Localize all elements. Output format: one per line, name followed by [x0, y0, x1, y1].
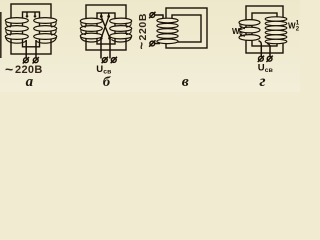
svg-text:W: W [288, 21, 296, 30]
winding top lead stub right (fig a) [34, 13, 36, 16]
core outer rect (fig v) [166, 8, 207, 48]
svg-text:в: в [182, 74, 189, 90]
winding top lead stub left (fig b) [100, 14, 102, 16]
svg-text:б: б [103, 75, 111, 90]
core outer rect (fig g) [246, 6, 283, 53]
left coil W2 half (fig b) [80, 18, 102, 42]
right coil W2 half (fig b) [110, 18, 132, 42]
terminal bottom (fig v) [149, 40, 155, 46]
wire down right (fig b) [109, 38, 111, 59]
left coil W2-2 (fig g) [239, 20, 260, 41]
page edge shadow [0, 12, 2, 58]
crossing wires X (fig b) [101, 17, 110, 39]
terminal right (fig b) [111, 57, 117, 63]
core window rect (fig a) [23, 12, 40, 47]
junction dot right top (fig b) [107, 15, 110, 18]
wire down left (fig b) [100, 38, 102, 59]
svg-text:U: U [258, 63, 265, 74]
junction dots bottom (fig b) [100, 37, 103, 40]
bottom hook right coil (fig g) [267, 43, 270, 56]
junction dot right top (fig a) [34, 15, 37, 18]
terminal left (fig b) [102, 57, 108, 63]
left coil W1 half (fig a) [5, 18, 28, 44]
bottom lead wire (fig v) [155, 43, 161, 45]
junction dot left top (fig b) [100, 15, 103, 18]
bottom hook left coil (fig g) [259, 41, 262, 57]
vertical label 220V (fig v) [134, 13, 149, 50]
winding top lead stub right (fig b) [108, 14, 110, 16]
terminal left (fig a) [23, 57, 29, 63]
coil on left leg (fig v) [157, 18, 178, 43]
terminal top (fig v) [149, 12, 155, 18]
wire down left (fig a) [25, 40, 27, 58]
right coil W1 half (fig a) [34, 18, 57, 44]
svg-text:~: ~ [134, 42, 149, 50]
svg-text:г: г [259, 73, 265, 90]
svg-text:св: св [265, 67, 273, 74]
junction dot left top (fig a) [26, 15, 29, 18]
core outer rect (fig b) [86, 5, 126, 50]
svg-text:~: ~ [5, 61, 13, 77]
core outer rect (fig a) [11, 4, 51, 54]
core window rect (fig v) [172, 15, 201, 42]
terminal right (fig a) [33, 57, 39, 63]
winding top lead stub left (fig a) [26, 13, 28, 16]
svg-text:220В: 220В [137, 13, 149, 41]
core window rect (fig g) [252, 13, 277, 46]
svg-text:а: а [26, 74, 34, 90]
top lead wire (fig v) [155, 15, 164, 19]
svg-text:U: U [96, 64, 103, 75]
terminal left (fig g) [258, 56, 264, 62]
core window rect (fig b) [97, 13, 115, 44]
right coil W2-1 (fig g) [265, 17, 287, 44]
wire down right (fig a) [35, 40, 37, 58]
terminal right (fig g) [266, 56, 272, 62]
